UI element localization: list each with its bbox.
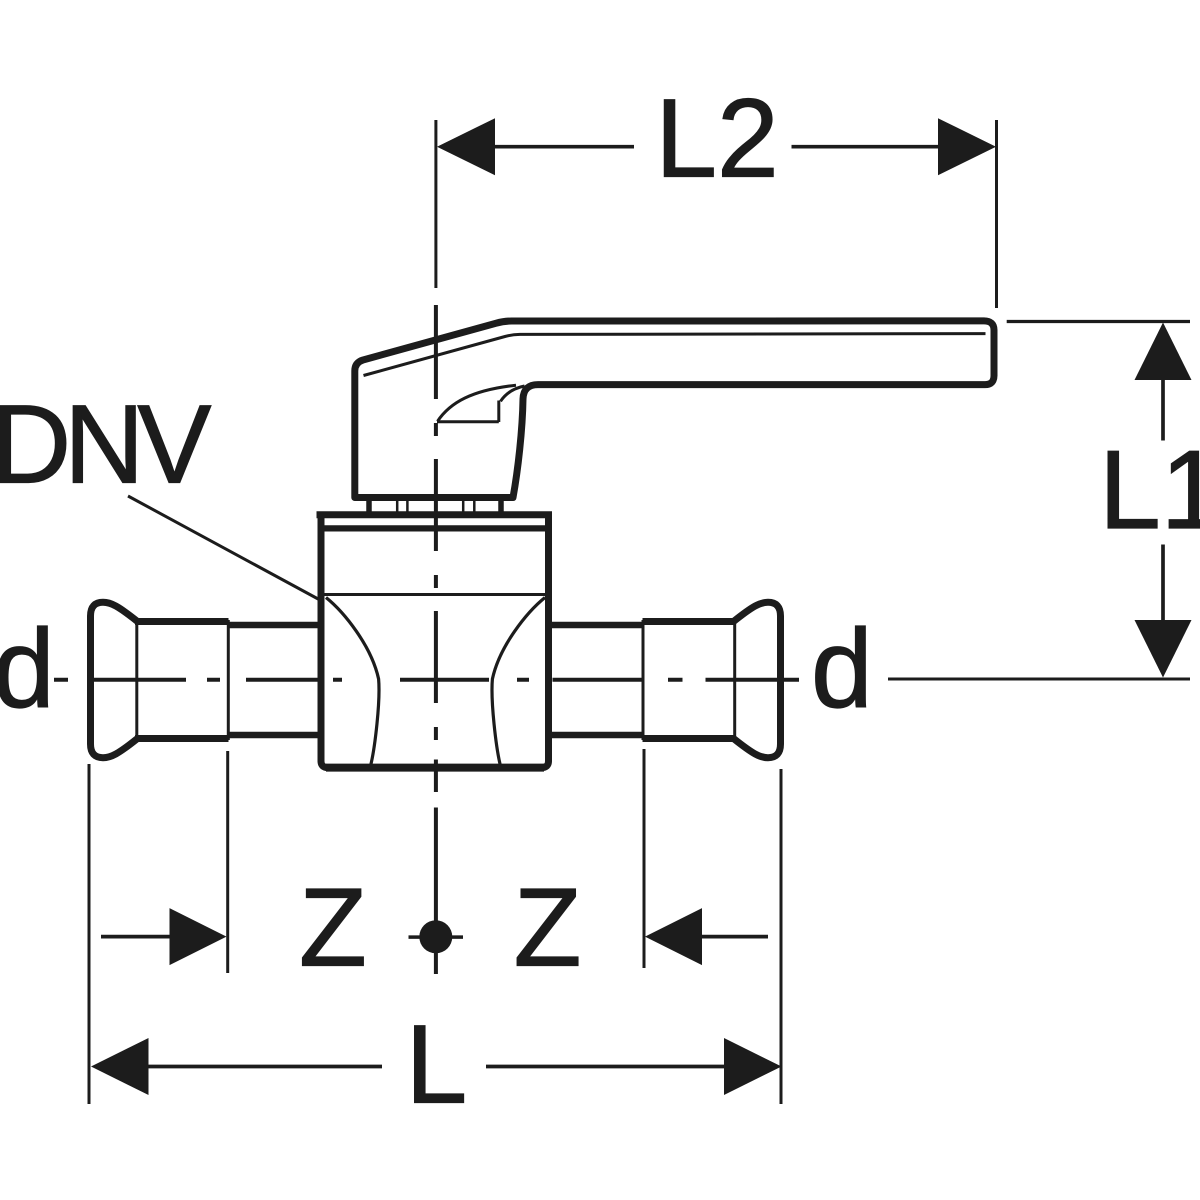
dimension L line right part: [486, 1065, 725, 1069]
svg-text:Z: Z: [514, 865, 582, 989]
flange right end connector: [546, 514, 550, 530]
dimension Z left line: [101, 935, 171, 939]
svg-text:L2: L2: [655, 77, 778, 201]
valve body bottom heavy line: [326, 764, 544, 772]
dimension L1 top extension line: [1007, 320, 1190, 323]
right pipe top edge: [552, 622, 643, 629]
DNV leader line: [128, 496, 320, 600]
L right extension line: [780, 769, 783, 1104]
valve body outline: [321, 518, 549, 768]
left bell inner vertical line: [135, 620, 138, 741]
L2 left arrowhead: [437, 118, 495, 175]
body top flange upper line: [317, 511, 553, 518]
Z left arrowhead (points right): [170, 908, 227, 965]
right bell inner vertical line: [733, 620, 736, 741]
body shoulder line: [325, 593, 547, 596]
left socket step line: [227, 620, 230, 740]
body top flange lower line: [322, 525, 548, 531]
L1 up arrowhead: [1135, 323, 1192, 381]
L left extension line: [88, 764, 91, 1104]
L2 right arrowhead: [938, 118, 996, 175]
handle inner contour line: [364, 334, 986, 376]
handle thumb-rest bottom edge: [437, 420, 499, 423]
handle thumb-rest inner curve: [501, 386, 525, 401]
flange left end connector: [318, 514, 322, 529]
L right arrowhead: [724, 1038, 782, 1095]
stem serration collar right edge: [498, 499, 504, 514]
left pipe bottom edge: [229, 732, 320, 739]
left press-socket top edge: [135, 618, 229, 625]
horizontal centerline (pipe axis, dash-dot): [54, 678, 799, 682]
dimension Z right line: [701, 935, 768, 939]
dimension L2 line left part: [494, 145, 634, 149]
Z right extension line: [643, 749, 646, 968]
dimension L1 bottom extension line: [888, 678, 1190, 681]
svg-text:d: d: [0, 607, 55, 731]
right press-socket bell outline: [734, 602, 781, 757]
left press-socket bottom edge: [135, 735, 229, 742]
right pipe bottom edge: [552, 732, 643, 739]
dimension L2 left extension line: [434, 120, 437, 288]
right socket step line: [642, 620, 645, 740]
dimension L2 right extension line: [995, 120, 998, 308]
Z left extension line: [226, 751, 229, 973]
body left waist curve: [326, 598, 379, 767]
handle lever outline: [355, 321, 994, 498]
svg-text:d: d: [811, 607, 873, 731]
L left arrowhead: [91, 1038, 149, 1095]
dimension L2 line right part: [792, 145, 941, 149]
center reference dot: [419, 920, 452, 953]
left press-socket bell outline: [91, 602, 138, 757]
handle thumb-rest outer curve: [438, 385, 517, 421]
dimension L line left part: [147, 1065, 382, 1069]
svg-text:L: L: [406, 1003, 468, 1127]
dimension L1 line upper part: [1161, 378, 1165, 441]
center dot left tick: [409, 935, 422, 939]
svg-text:DNV: DNV: [0, 383, 211, 507]
stem serration collar left edge: [366, 499, 372, 514]
right press-socket bottom edge: [643, 735, 737, 742]
stem serration ticks: [397, 499, 474, 512]
L1 down arrowhead: [1135, 620, 1192, 678]
vertical centerline (valve axis, dash-dot): [434, 305, 438, 974]
body right waist curve: [492, 598, 545, 767]
dimension L1 line lower part: [1161, 545, 1165, 621]
Z right arrowhead (points left): [645, 908, 702, 965]
svg-text:L1: L1: [1099, 428, 1200, 552]
right press-socket top edge: [643, 618, 737, 625]
left pipe top edge: [229, 622, 320, 629]
handle thumb-rest vertical edge: [497, 401, 500, 423]
center dot right tick: [451, 935, 464, 939]
svg-text:Z: Z: [299, 865, 367, 989]
